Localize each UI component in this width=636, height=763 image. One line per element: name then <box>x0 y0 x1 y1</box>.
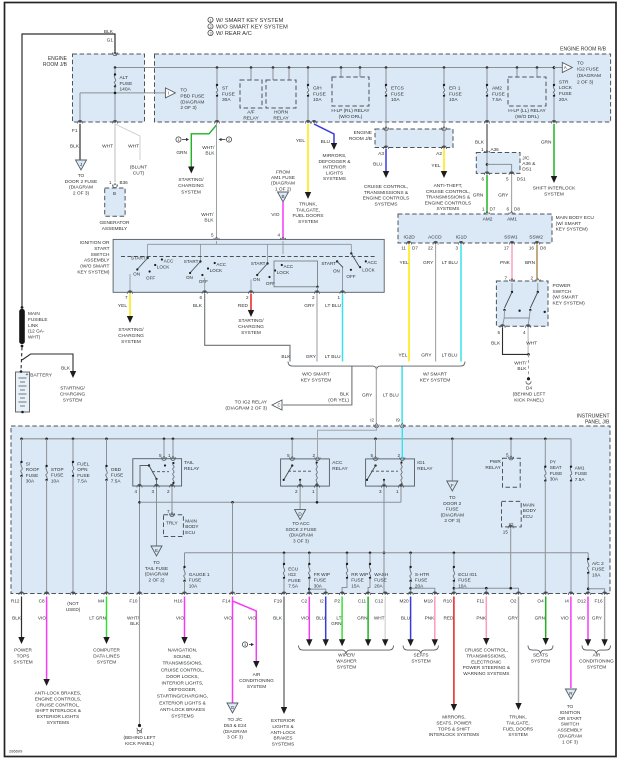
connector power switch 4 <box>526 325 531 328</box>
legend note 3 W/ REAR A/C <box>208 30 213 35</box>
connector not used <box>70 592 75 595</box>
svg-text:FUSE: FUSE <box>313 91 326 97</box>
wire R12 BLK <box>21 597 23 638</box>
svg-text:FUSE: FUSE <box>77 473 90 478</box>
svg-text:4: 4 <box>134 489 137 494</box>
battery feed wire from battery to G1 <box>22 34 115 307</box>
svg-text:10A: 10A <box>51 478 60 483</box>
svg-text:J: J <box>80 162 82 167</box>
svg-text:GRN: GRN <box>176 150 187 156</box>
wire dashed to battery <box>21 347 22 371</box>
svg-text:C: C <box>277 403 280 408</box>
svg-text:A3: A3 <box>378 151 384 157</box>
svg-text:SSW1: SSW1 <box>504 235 518 241</box>
connector TAIL 2 <box>169 484 174 487</box>
svg-text:2: 2 <box>246 295 249 300</box>
svg-text:SYSTEM: SYSTEM <box>508 732 527 737</box>
svg-text:D4: D4 <box>526 386 532 392</box>
svg-text:FUSE: FUSE <box>550 471 563 476</box>
svg-text:STARTING/: STARTING/ <box>178 177 204 183</box>
legend note 1 W/ SMART KEY SYSTEM <box>208 17 213 22</box>
svg-text:EXTERIOR: EXTERIOR <box>271 718 296 723</box>
svg-text:FUSE: FUSE <box>415 578 428 583</box>
svg-text:RELAY: RELAY <box>485 465 501 471</box>
svg-text:YEL: YEL <box>118 303 127 309</box>
svg-text:10A: 10A <box>313 97 322 103</box>
svg-text:MIRRORS,: MIRRORS, <box>323 153 347 159</box>
brace air conditioning right <box>582 646 611 654</box>
svg-text:KEY SYSTEM): KEY SYSTEM) <box>77 270 110 276</box>
svg-text:5: 5 <box>370 453 373 458</box>
svg-text:TRANSMISSIONS,: TRANSMISSIONS, <box>162 661 202 666</box>
svg-text:PNK: PNK <box>500 260 511 266</box>
svg-text:AM1 FUSE: AM1 FUSE <box>271 175 295 181</box>
svg-text:LOCK: LOCK <box>210 268 223 273</box>
relay ACC RELAY <box>291 438 294 441</box>
svg-text:ALT: ALT <box>120 75 129 81</box>
svg-text:1: 1 <box>482 207 485 212</box>
connector H-LP RL output <box>311 120 316 123</box>
svg-text:BLK: BLK <box>205 151 215 157</box>
svg-text:(DIAGRAM: (DIAGRAM <box>180 99 204 105</box>
svg-text:PANEL J/B: PANEL J/B <box>585 420 610 426</box>
wire IG2D YEL <box>408 245 410 362</box>
svg-text:RELAY: RELAY <box>417 466 433 472</box>
connector power switch 5 <box>500 325 505 328</box>
fuse EFI 1 10A <box>443 66 446 69</box>
svg-text:MAIN BODY ECU: MAIN BODY ECU <box>556 215 595 221</box>
svg-text:SYSTEMS: SYSTEMS <box>47 720 69 725</box>
wire F10 WHT/BLK <box>139 597 141 725</box>
connector F10 <box>137 592 142 595</box>
svg-text:30A: 30A <box>26 479 35 484</box>
svg-text:START: START <box>131 256 146 261</box>
svg-text:GRY: GRY <box>592 616 603 621</box>
svg-text:STARTING/: STARTING/ <box>60 386 85 391</box>
svg-text:CONDITIONING: CONDITIONING <box>579 658 614 663</box>
svg-text:5: 5 <box>506 453 509 458</box>
connector ignition pin 2 gry <box>314 291 319 294</box>
svg-text:FUSE: FUSE <box>492 91 505 97</box>
svg-text:(OR YEL): (OR YEL) <box>328 397 349 403</box>
svg-text:SYSTEM: SYSTEM <box>13 659 32 664</box>
svg-text:(DIAGRAM: (DIAGRAM <box>145 572 169 577</box>
svg-text:(DIAGRAM: (DIAGRAM <box>271 181 295 187</box>
svg-text:VIO: VIO <box>224 616 232 621</box>
svg-text:STR: STR <box>559 79 569 85</box>
svg-text:(12 GA-: (12 GA- <box>28 329 45 334</box>
svg-text:G: G <box>231 705 235 710</box>
svg-text:FUSE: FUSE <box>391 91 404 97</box>
svg-text:2: 2 <box>312 453 315 458</box>
svg-text:6: 6 <box>506 207 509 212</box>
svg-text:BODY: BODY <box>523 508 537 513</box>
svg-text:BATTERY: BATTERY <box>30 373 52 379</box>
fuse FR WIP 30A <box>308 552 311 555</box>
svg-text:M20: M20 <box>399 599 409 604</box>
wire ignition GRY <box>316 294 318 362</box>
svg-text:KICK PANEL): KICK PANEL) <box>514 397 544 403</box>
svg-text:CHARGING: CHARGING <box>60 391 86 396</box>
svg-text:SYSTEM: SYSTEM <box>241 330 261 336</box>
svg-text:+: + <box>26 372 29 378</box>
fuse PY SEAT 30A <box>544 438 547 441</box>
svg-text:F10: F10 <box>129 599 137 604</box>
svg-text:TO IG2 RELAY: TO IG2 RELAY <box>235 400 268 406</box>
svg-text:SSW2: SSW2 <box>529 235 543 241</box>
svg-text:IG2D: IG2D <box>404 235 416 241</box>
svg-text:1: 1 <box>481 147 484 152</box>
svg-text:BLK: BLK <box>204 218 214 224</box>
svg-text:EXTERIOR LIGHTS &: EXTERIOR LIGHTS & <box>159 700 206 705</box>
svg-text:O4: O4 <box>537 599 544 604</box>
svg-text:ACC: ACC <box>284 264 294 269</box>
connector ACC 1 <box>314 484 319 487</box>
svg-text:S-HTR: S-HTR <box>415 572 430 577</box>
svg-text:ROOM J/B: ROOM J/B <box>349 136 372 142</box>
POWER SWITCH box <box>509 280 514 283</box>
svg-text:LOCK: LOCK <box>362 268 375 273</box>
svg-text:(DIAGRAM 2 OF 3): (DIAGRAM 2 OF 3) <box>225 405 267 411</box>
main fusible link <box>19 309 25 344</box>
svg-text:FUSE: FUSE <box>314 578 327 583</box>
arrow F TO DOOR 2 FUSE <box>447 481 458 491</box>
svg-text:OPN: OPN <box>77 467 87 472</box>
connector G1 <box>112 53 117 56</box>
svg-text:WASH: WASH <box>374 572 388 577</box>
svg-text:PNK: PNK <box>425 616 436 621</box>
svg-text:FUEL DOORS: FUEL DOORS <box>503 726 533 731</box>
connector A3 <box>383 146 388 149</box>
connector IG1D <box>458 241 463 244</box>
svg-text:BLK: BLK <box>517 366 527 372</box>
arrow starting system GRN <box>188 167 194 174</box>
svg-text:LOCK: LOCK <box>559 85 573 91</box>
connector SSW1 <box>509 241 514 244</box>
svg-text:22: 22 <box>428 246 434 251</box>
wire G/H YEL to trunk systems <box>307 124 309 192</box>
svg-text:FUSE: FUSE <box>189 578 202 583</box>
svg-text:2 OF 3): 2 OF 3) <box>73 190 90 196</box>
svg-text:5: 5 <box>211 233 214 238</box>
svg-text:17: 17 <box>504 246 510 251</box>
svg-text:BRAKES: BRAKES <box>273 736 292 741</box>
svg-text:I2: I2 <box>320 599 324 604</box>
svg-text:M4: M4 <box>98 599 105 604</box>
svg-text:CRUISE CONTROL,: CRUISE CONTROL, <box>161 667 204 672</box>
svg-text:PY: PY <box>550 460 557 465</box>
svg-text:BLU: BLU <box>373 162 383 168</box>
arrow mirrors systems <box>331 143 337 150</box>
ignition switch dashed link <box>121 256 377 258</box>
svg-text:30A: 30A <box>222 97 231 103</box>
wire C11 GRN <box>367 597 369 640</box>
svg-text:ST: ST <box>222 86 228 92</box>
svg-text:RELAY: RELAY <box>332 466 348 472</box>
arrow shift interlock <box>551 176 557 183</box>
svg-text:(DIAGRAM: (DIAGRAM <box>577 73 601 79</box>
svg-text:A/C 2: A/C 2 <box>592 561 604 566</box>
wire I5 WHT to generator <box>114 124 116 182</box>
svg-text:WHT/: WHT/ <box>202 145 215 151</box>
wire A3 BLU <box>385 149 387 171</box>
svg-text:5: 5 <box>287 453 290 458</box>
svg-text:LT BLU: LT BLU <box>325 354 341 360</box>
wire common to F14 <box>231 501 234 504</box>
connector C11 <box>366 592 371 595</box>
svg-text:SEATS: SEATS <box>533 653 548 658</box>
svg-text:30A: 30A <box>550 477 559 482</box>
svg-text:DOOR 2 FUSE: DOOR 2 FUSE <box>65 179 98 185</box>
connector top A2 wire <box>441 128 446 131</box>
arrow E TO TAIL FUSE <box>151 546 162 556</box>
svg-text:ENGINE CONTROLS,: ENGINE CONTROLS, <box>35 696 82 701</box>
svg-text:5: 5 <box>506 177 509 182</box>
svg-text:IG2 FUSE: IG2 FUSE <box>577 67 599 73</box>
svg-text:(W/O SMART: (W/O SMART <box>80 264 109 270</box>
svg-text:RR WIP: RR WIP <box>351 572 368 577</box>
wire TAIL 2 to TRLY <box>171 488 173 515</box>
svg-text:BLK: BLK <box>193 303 203 309</box>
svg-text:1: 1 <box>109 180 112 185</box>
svg-text:ECU: ECU <box>523 514 534 519</box>
svg-text:OR START: OR START <box>558 716 581 721</box>
ENGINE ROOM R/B box <box>155 54 611 122</box>
svg-text:I: I <box>168 91 169 96</box>
svg-text:TO ACC: TO ACC <box>292 521 310 526</box>
ignition switch contacts group <box>199 260 201 262</box>
wire AM2 BLK to J/C <box>486 124 488 152</box>
svg-text:LIGHTS &: LIGHTS & <box>272 724 294 729</box>
svg-text:ETCS: ETCS <box>391 86 404 92</box>
arrow C TO IG2 RELAY <box>272 400 282 410</box>
wire to F1 <box>79 93 81 122</box>
svg-text:TO J/C: TO J/C <box>228 717 243 722</box>
svg-text:A: A <box>564 65 567 70</box>
wire D12 VIO <box>587 597 589 640</box>
svg-text:ENGINE CONTROLS: ENGINE CONTROLS <box>425 200 471 206</box>
svg-text:P2: P2 <box>334 599 340 604</box>
svg-text:LOCK: LOCK <box>277 270 290 275</box>
svg-text:(DIAGRAM: (DIAGRAM <box>69 185 93 191</box>
svg-text:SYSTEM: SYSTEM <box>531 658 550 663</box>
wire O4 GRN <box>545 597 547 639</box>
svg-text:FUEL: FUEL <box>77 462 89 467</box>
connector O2 <box>516 592 521 595</box>
svg-text:10A: 10A <box>458 583 467 588</box>
svg-text:ANTI-THEFT,: ANTI-THEFT, <box>434 183 463 189</box>
svg-text:15: 15 <box>503 530 509 535</box>
svg-text:G/H: G/H <box>313 86 322 92</box>
svg-text:CRUISE CONTROL,: CRUISE CONTROL, <box>465 648 508 653</box>
power switch contacts <box>511 283 513 292</box>
svg-text:VIO: VIO <box>271 212 280 218</box>
svg-text:D8: D8 <box>514 207 520 212</box>
svg-text:TO: TO <box>567 704 574 709</box>
wire IG1 3 to fuse feeder and C12 <box>383 488 385 594</box>
arrow R TO IGNITION <box>565 689 576 699</box>
svg-text:3: 3 <box>455 246 458 251</box>
legend note 2 W/O SMART KEY SYSTEM <box>208 24 213 29</box>
svg-text:BLK: BLK <box>104 29 114 35</box>
fuse FUEL OPN 7.5A <box>72 438 75 441</box>
svg-text:4: 4 <box>277 233 280 238</box>
wire H16 VIO <box>184 597 186 638</box>
svg-text:J/C: J/C <box>522 156 530 162</box>
wire WHT power switch <box>527 328 529 355</box>
svg-text:MAIN: MAIN <box>28 311 40 316</box>
svg-text:(W/ SMART: (W/ SMART <box>553 295 579 301</box>
svg-text:VIO: VIO <box>176 616 184 621</box>
ignition switch contacts group 4 <box>350 252 352 254</box>
svg-text:WARNING SYSTEMS: WARNING SYSTEMS <box>463 671 509 676</box>
svg-text:SHIFT INTERLOCK &: SHIFT INTERLOCK & <box>35 708 82 713</box>
svg-text:3: 3 <box>244 643 246 647</box>
svg-text:YEL: YEL <box>431 163 440 169</box>
svg-text:1: 1 <box>312 489 315 494</box>
svg-text:2: 2 <box>167 489 170 494</box>
svg-text:CRUISE CONTROL,: CRUISE CONTROL, <box>36 702 79 707</box>
svg-text:ROOM J/B: ROOM J/B <box>43 62 68 68</box>
connector I2b <box>323 592 328 595</box>
svg-text:D8: D8 <box>540 246 546 251</box>
svg-text:S/: S/ <box>26 462 31 467</box>
svg-text:SYSTEM: SYSTEM <box>411 658 430 663</box>
svg-text:2: 2 <box>209 25 211 29</box>
svg-text:20A: 20A <box>374 583 383 588</box>
svg-text:POWER STEERING &: POWER STEERING & <box>463 665 511 670</box>
svg-text:FUSE: FUSE <box>374 578 387 583</box>
svg-text:RED: RED <box>238 303 249 309</box>
wire M20 BLU <box>410 597 412 640</box>
svg-text:SYSTEMS: SYSTEMS <box>272 742 294 747</box>
connector H16 <box>182 592 187 595</box>
svg-text:FUSE: FUSE <box>449 91 462 97</box>
fuse GAUGE 1 10A <box>184 553 186 567</box>
svg-text:FUSE: FUSE <box>592 567 605 572</box>
svg-text:IG1D: IG1D <box>456 235 468 241</box>
wire I2 to ACC relay 2 <box>318 428 377 459</box>
svg-text:TO: TO <box>180 88 187 94</box>
connector DS1 pin 6 <box>484 172 489 175</box>
wire A2 YEL <box>443 149 445 171</box>
connector I4 <box>568 592 573 595</box>
svg-text:FUSE: FUSE <box>446 507 459 512</box>
svg-text:30A: 30A <box>314 583 323 588</box>
fuse STR LOCK 20A <box>553 66 556 69</box>
svg-text:7.5A: 7.5A <box>492 97 503 103</box>
svg-text:ASSEMBLY: ASSEMBLY <box>558 728 584 733</box>
wire ALT fuse output node <box>114 87 116 123</box>
svg-text:R12: R12 <box>11 599 20 604</box>
svg-text:ENGINE CONTROLS: ENGINE CONTROLS <box>363 196 409 202</box>
svg-text:2 OF 3): 2 OF 3) <box>577 80 594 86</box>
svg-text:BLK: BLK <box>491 341 501 347</box>
svg-text:BLU: BLU <box>316 616 326 621</box>
svg-text:KEY SYSTEM: KEY SYSTEM <box>420 377 451 383</box>
connector C8 <box>44 592 49 595</box>
svg-text:A36 &: A36 & <box>522 161 536 167</box>
fuse ST 30A <box>216 66 219 69</box>
svg-text:SYSTEMS: SYSTEMS <box>171 714 193 719</box>
svg-text:D7: D7 <box>412 246 418 251</box>
svg-text:FR WIP: FR WIP <box>314 572 330 577</box>
svg-text:C11: C11 <box>358 599 367 604</box>
svg-text:GRY: GRY <box>362 393 373 399</box>
svg-text:1: 1 <box>396 489 399 494</box>
svg-text:SEATS, POWER: SEATS, POWER <box>436 720 472 725</box>
arrow D TO ACC SOCK 2 FUSE <box>295 510 306 520</box>
svg-text:15A: 15A <box>351 583 360 588</box>
svg-text:W/ REAR A/C: W/ REAR A/C <box>216 31 252 37</box>
fuse A/C 2 10A <box>587 553 589 559</box>
MAIN BODY ECU box <box>484 213 489 216</box>
svg-text:ON: ON <box>186 275 193 280</box>
wire ACCD GRY <box>435 245 437 362</box>
svg-text:ECU IG1: ECU IG1 <box>458 572 477 577</box>
svg-text:STARTING/CHARGING,: STARTING/CHARGING, <box>157 694 208 699</box>
svg-text:LT BLU: LT BLU <box>442 352 458 358</box>
svg-text:DOOR LOCKS,: DOOR LOCKS, <box>166 674 199 679</box>
svg-text:3: 3 <box>379 489 382 494</box>
svg-text:PNK: PNK <box>476 616 487 621</box>
svg-text:KICK PANEL): KICK PANEL) <box>125 741 154 746</box>
svg-text:START: START <box>94 246 109 252</box>
svg-text:16: 16 <box>529 246 535 251</box>
svg-text:AM1: AM1 <box>575 466 585 471</box>
connector F16 <box>602 592 607 595</box>
relay A/F RELAY <box>250 66 253 69</box>
svg-text:1: 1 <box>209 18 211 22</box>
svg-text:I9: I9 <box>396 418 400 423</box>
svg-text:ELECTRONIC: ELECTRONIC <box>471 659 502 664</box>
svg-text:SYSTEM: SYSTEM <box>247 684 266 689</box>
svg-text:NAVIGATION,: NAVIGATION, <box>168 648 198 653</box>
wire BLK power switch <box>503 328 529 355</box>
wire STR LOCK GRN to shift interlock <box>553 124 555 176</box>
svg-text:(DIAGRAM: (DIAGRAM <box>223 729 247 734</box>
fuse WASH 20A <box>369 552 372 555</box>
svg-text:CHARGING: CHARGING <box>238 324 264 330</box>
svg-text:ENGINE: ENGINE <box>354 130 372 136</box>
bus wire in engine room boxes <box>115 67 554 69</box>
svg-text:SEATS: SEATS <box>413 653 428 658</box>
svg-text:GENERATOR: GENERATOR <box>100 220 130 226</box>
wire ignition BLK <box>205 294 290 362</box>
svg-text:GRY: GRY <box>498 193 509 199</box>
wire I2 BLU <box>325 597 327 640</box>
svg-text:W/O SMART KEY SYSTEM: W/O SMART KEY SYSTEM <box>216 24 288 30</box>
svg-text:ACC: ACC <box>216 262 226 267</box>
svg-text:ROOF: ROOF <box>26 467 40 472</box>
wire GRY to ECU AM1 <box>511 175 513 213</box>
wire VIO from B to ignition pin 4 <box>282 202 284 239</box>
svg-text:SYSTEMS: SYSTEMS <box>323 176 346 182</box>
svg-text:WHT: WHT <box>374 616 385 621</box>
svg-text:10A: 10A <box>592 572 601 577</box>
arrow G TO J/C D53 E24 <box>227 703 238 713</box>
connector F11 <box>484 592 489 595</box>
wire ignition LT BLU <box>342 294 344 362</box>
fuse ECU IG2 7.5A <box>283 552 286 555</box>
svg-text:LT: LT <box>336 616 341 621</box>
relay H-LP (RL) RELAY (W/O DRL) <box>340 66 343 69</box>
main bus in panel <box>22 438 572 440</box>
arrow anti-theft systems <box>441 171 447 178</box>
svg-text:2: 2 <box>295 489 298 494</box>
svg-text:START: START <box>321 261 336 266</box>
svg-text:LT BLU: LT BLU <box>442 260 458 266</box>
